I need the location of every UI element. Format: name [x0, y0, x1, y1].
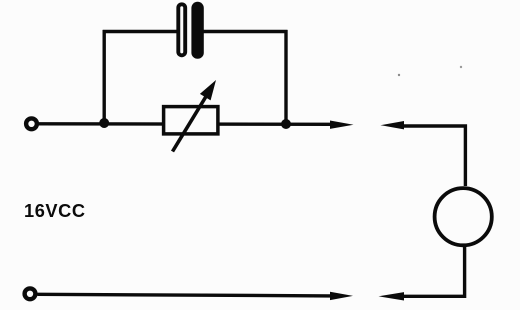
wire capacitor branch left: [103, 30, 177, 33]
wire top-right segment to corner and down to lamp: [403, 126, 465, 186]
arrowhead bottom right-pointing: [330, 292, 353, 300]
speck (scan noise): [460, 66, 462, 68]
wire bottom main horizontal: [38, 294, 332, 296]
wire left vertical branch: [102, 30, 105, 123]
node B (right junction dot): [281, 119, 291, 129]
capacitor C1 right plate: [191, 2, 203, 59]
arrowhead top right-pointing: [330, 121, 354, 129]
resistor R1 adjustment arrowhead: [200, 80, 216, 100]
terminal J2 (bottom-left input): [25, 288, 36, 299]
resistor R1 (variable, body): [164, 107, 218, 134]
capacitor C1 left plate: [178, 4, 185, 55]
wire top main horizontal: [38, 122, 331, 126]
terminal J1 (top-left input): [26, 118, 37, 129]
arrowhead top left-pointing: [381, 121, 405, 129]
lamp LP1: [435, 188, 492, 245]
svg-text:16VCC: 16VCC: [24, 201, 86, 221]
arrowhead bottom left-pointing: [379, 292, 405, 300]
wire lamp bottom to corner and left: [404, 246, 465, 296]
wire right vertical branch: [284, 30, 287, 124]
node A (left junction dot): [99, 118, 109, 128]
wire capacitor branch right: [204, 30, 288, 33]
speck (scan noise): [398, 74, 400, 76]
resistor R1 adjustment arrow shaft: [173, 94, 208, 152]
